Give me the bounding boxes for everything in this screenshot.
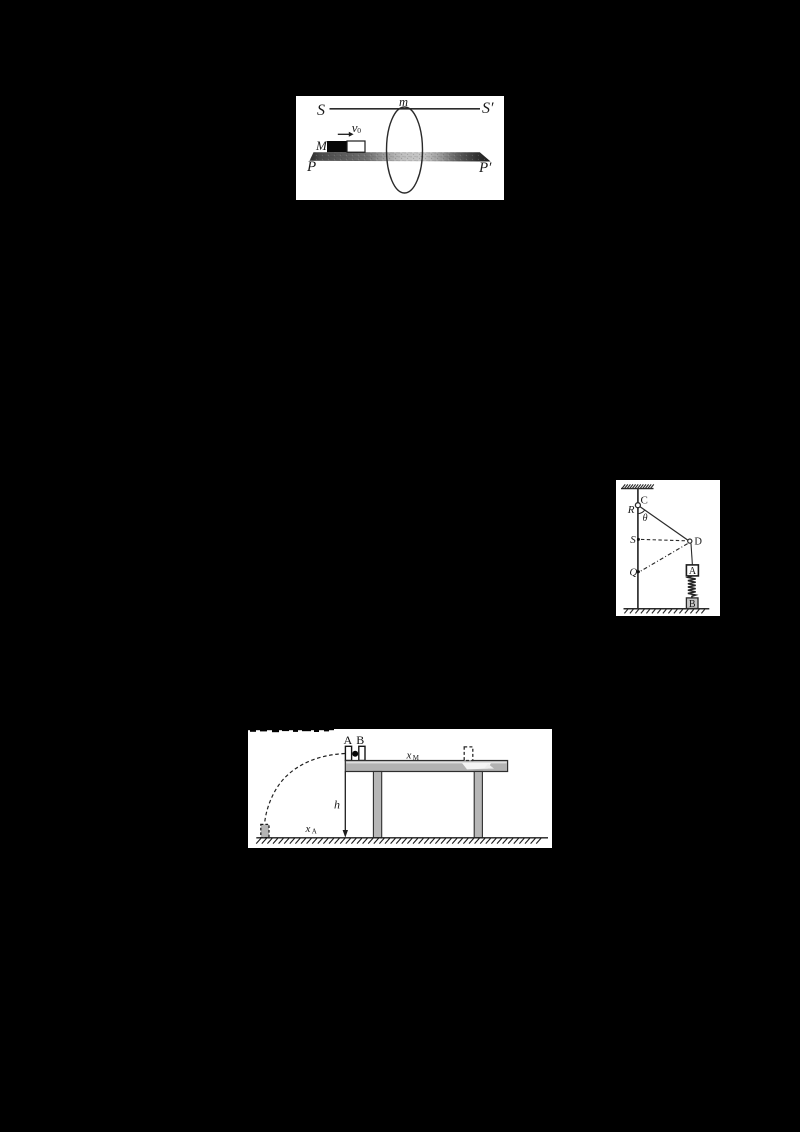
landed block (dashed) [261,824,269,837]
arrow v0 [338,133,349,135]
ceiling [621,484,654,488]
block B [359,746,365,760]
svg-text:x: x [305,823,311,835]
ball [352,750,358,756]
pulley C [635,502,640,507]
floor [624,608,710,613]
white patch on tabletop [462,763,491,769]
svg-text:M: M [315,138,328,153]
spring [688,576,696,598]
h arrow [344,771,346,831]
tabletop [345,760,507,771]
svg-text:h: h [334,797,340,811]
svg-text:S′: S′ [482,100,494,117]
dashed line D-Q [640,543,687,571]
left table leg [373,771,381,837]
svg-text:M: M [413,754,420,762]
figure 3: table with blocks A,B, projectile trajectory, h and xA [248,729,552,848]
angle arc [638,510,645,514]
block B [686,598,698,609]
dashed trajectory [265,753,345,823]
rod (vertical pole) [637,488,639,608]
block A [686,565,698,576]
block M (white half) [347,141,365,152]
svg-text:A: A [312,827,317,835]
svg-text:S: S [630,534,636,546]
node Q dot [637,570,640,573]
figure 1: block M on plank P-P' with vertical loop m under line S-S' [296,96,504,200]
dashed line S-D [641,539,686,540]
ground [256,836,548,838]
ring D [688,539,692,543]
svg-text:R: R [627,504,635,516]
svg-text:A: A [689,566,697,577]
svg-text:x: x [406,749,412,761]
right table leg [474,771,482,837]
string D-A [691,543,692,565]
block M (black half) [327,141,347,152]
cropped text remnant strip [248,729,334,732]
svg-text:P′: P′ [478,160,492,176]
svg-text:B: B [356,733,364,747]
svg-text:A: A [344,733,353,747]
string C-D [638,505,690,541]
block A [345,746,351,760]
svg-text:P: P [306,159,316,175]
svg-text:θ: θ [643,513,648,524]
dashed block on table [464,746,473,760]
svg-text:S: S [317,102,325,119]
svg-text:0: 0 [357,126,361,135]
svg-text:C: C [641,494,648,506]
svg-text:D: D [694,536,702,547]
node S dot [637,538,640,541]
plank P-P' [310,152,491,161]
loop (ellipse) m [387,107,423,193]
figure 2: pulley C on rod, string to D, spring with blocks A,B [616,480,720,616]
wire: string S-S' [330,108,481,110]
svg-text:Q: Q [629,566,637,578]
